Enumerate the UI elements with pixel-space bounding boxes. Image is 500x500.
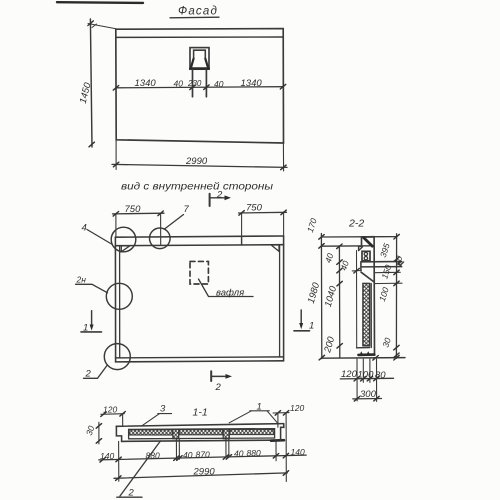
tick [174, 456, 179, 461]
svg-text:40: 40 [174, 79, 184, 89]
extension line left of profile [356, 251, 358, 349]
bottom dims extension a [362, 359, 364, 382]
inner view right edge [283, 236, 285, 361]
svg-text:40: 40 [234, 449, 244, 459]
tick [226, 455, 231, 460]
svg-text:750: 750 [125, 204, 142, 215]
bottom dimension line 1 [99, 455, 306, 460]
rib end tick [400, 262, 404, 266]
tick [96, 439, 101, 444]
svg-text:Фасад: Фасад [178, 6, 218, 18]
tick [223, 455, 228, 460]
вафля leader [199, 279, 254, 297]
lifting slot funnel left [191, 59, 194, 68]
label 3 underline [158, 413, 172, 415]
svg-text:2990: 2990 [193, 467, 216, 478]
facade left dimension line 1450 [90, 19, 92, 147]
svg-text:2-2: 2-2 [348, 218, 364, 230]
dim 300 extension a [356, 359, 358, 401]
dashed opening вафля [190, 261, 208, 284]
svg-text:300: 300 [360, 389, 377, 400]
band bottom extension line [322, 245, 373, 247]
tick [374, 396, 379, 401]
rib end notch [398, 262, 401, 267]
facade bottom dimension extension right [282, 143, 284, 171]
tick [158, 211, 163, 216]
tick [361, 376, 366, 381]
bottom dims extension b [369, 359, 371, 383]
bottom extension line [322, 357, 405, 360]
svg-text:40: 40 [183, 450, 193, 460]
lifting slot inner box [194, 50, 206, 58]
insulation segment 3 [230, 429, 274, 434]
dim 120 right extension a [277, 413, 279, 427]
dim 300 line [353, 398, 382, 400]
rib bottom edge [361, 266, 401, 268]
inner view bottom band line [116, 361, 284, 362]
label 3 leader [142, 414, 160, 427]
dim 750 left extension b [160, 213, 162, 245]
bottom dimension line 2990 [114, 473, 287, 478]
dim 750 right extension a [241, 213, 243, 236]
dim extension line y283 [374, 282, 402, 284]
left outer dimension line [320, 234, 322, 359]
inner frame right [274, 429, 276, 438]
hatch bottom line [357, 347, 370, 349]
dim 750 right extension b [283, 212, 285, 236]
tick small [92, 24, 97, 28]
svg-text:40: 40 [214, 79, 224, 89]
section mark 1 left line [91, 311, 93, 327]
svg-text:140: 140 [291, 447, 305, 457]
slot channel right line [205, 70, 207, 97]
lifting slot bottom thick edge [190, 67, 209, 70]
profile step tick [359, 247, 363, 250]
tick [394, 257, 399, 262]
tick [373, 356, 378, 361]
bottom dims line 120-100-80 [340, 377, 393, 380]
label 2 leader [84, 366, 108, 379]
svg-text:1-1: 1-1 [193, 407, 208, 419]
inner frame left [128, 429, 130, 438]
rib top edge [361, 261, 402, 263]
rib left face [360, 262, 362, 271]
top extension line [322, 236, 398, 238]
svg-text:120: 120 [290, 403, 304, 413]
dim 120 left line [101, 413, 125, 416]
label 1 underline [250, 410, 269, 412]
insulation segment 2 [179, 430, 222, 435]
section mark 2 top bar [209, 194, 211, 206]
inner frame bottom [129, 437, 275, 440]
anchor box [362, 251, 370, 260]
tick [367, 376, 372, 381]
strip right cap [281, 424, 284, 441]
section mark 1 left arrowhead [90, 325, 94, 331]
extension x276 [275, 440, 277, 461]
lifting slot funnel right [205, 59, 208, 68]
dim 300 extension b [376, 359, 378, 401]
svg-text:880: 880 [247, 448, 261, 458]
connector rib 2 [223, 429, 229, 438]
svg-text:870: 870 [196, 449, 210, 459]
dim 750 left line [113, 212, 165, 215]
dim 150 extension line [375, 271, 401, 273]
tick [394, 281, 399, 286]
tick [337, 260, 342, 265]
tick [337, 244, 342, 249]
tick [177, 456, 182, 461]
section mark 1 right line [300, 310, 302, 325]
strip bottom thick right [271, 439, 284, 442]
top band joint [241, 236, 243, 245]
lifting slot outer box [190, 48, 209, 70]
insulation segment 1 [129, 430, 172, 435]
dim 40 tick line left [352, 270, 361, 272]
svg-text:7: 7 [184, 204, 190, 215]
label 4 leader [87, 230, 112, 245]
tick [394, 345, 399, 350]
tick [283, 453, 288, 458]
tick [283, 411, 288, 416]
detail circle C1 [111, 227, 136, 252]
foot triangle left [360, 351, 363, 354]
section mark 2 top arrowhead [225, 195, 232, 200]
inner frame top [129, 428, 275, 431]
thick diagonal in top band [364, 238, 373, 246]
svg-text:2: 2 [216, 190, 223, 201]
facade middle dimension line [116, 87, 283, 88]
dim 120 right line [273, 412, 289, 414]
inner view right band line [279, 245, 281, 357]
tick [100, 458, 105, 463]
tick [280, 84, 285, 89]
svg-text:2: 2 [215, 382, 222, 393]
profile top edge [361, 236, 374, 238]
tick [113, 86, 118, 91]
inner view left band line [119, 246, 121, 358]
tick [116, 457, 121, 462]
tick [88, 21, 93, 26]
tick [113, 162, 118, 167]
tick [394, 234, 399, 239]
strip left cap [116, 426, 121, 441]
anchor circle upper [364, 252, 367, 255]
svg-text:2н: 2н [76, 275, 87, 285]
svg-text:вафля: вафля [216, 288, 244, 299]
tick [204, 85, 209, 90]
svg-text:120: 120 [341, 369, 358, 380]
inner view bottom edge [116, 357, 284, 358]
section mark 2 bottom arrowhead [226, 374, 233, 379]
label 1 leader b [267, 411, 278, 424]
extension x118 [118, 441, 120, 481]
tick [319, 355, 324, 360]
tick [89, 142, 94, 147]
label 1 leader a [229, 411, 251, 423]
tick [374, 376, 379, 381]
extension x225 [225, 439, 227, 458]
inner face line [370, 284, 372, 348]
strip top edge [116, 424, 284, 427]
profile step [359, 246, 362, 250]
svg-text:3: 3 [160, 404, 166, 415]
tick [337, 344, 342, 349]
tick [319, 235, 324, 240]
profile left face upper [361, 237, 363, 246]
tick [319, 244, 324, 249]
label 2 bottom leader [120, 441, 161, 496]
facade top band line [116, 36, 283, 38]
section mark 2 top arrow [210, 197, 226, 199]
dim 30 line [98, 422, 100, 444]
extension x179 [178, 439, 180, 460]
foot triangle right [367, 351, 370, 354]
tick [190, 85, 195, 90]
label 2 bottom underline [117, 496, 142, 498]
tick [281, 165, 286, 170]
tick [275, 411, 280, 416]
svg-text:230: 230 [187, 79, 202, 88]
inner view top edge [115, 236, 283, 237]
facade bottom dimension extension left [115, 140, 117, 170]
section mark 2 bottom arrow [211, 375, 227, 377]
tick [96, 424, 101, 429]
dim 750 right line [239, 211, 287, 214]
dim 120 right extension long [285, 413, 287, 482]
svg-text:4: 4 [82, 223, 87, 234]
cropped element at top edge [57, 1, 143, 4]
detail circle C4 [104, 344, 130, 370]
svg-text:вид с внутренней стороны: вид с внутренней стороны [121, 182, 274, 193]
tick [281, 210, 286, 215]
inner dimension line [338, 246, 340, 358]
detail circle C2 [150, 228, 171, 249]
detail circle C3 [106, 283, 132, 309]
tick [354, 268, 359, 273]
strip bottom edge [122, 440, 284, 441]
inner view left edge [114, 237, 116, 362]
section mark 1 right bar [294, 330, 310, 332]
top extension to facade corner [88, 24, 116, 29]
section mark 1 right arrowhead [299, 323, 303, 329]
profile inner diagonal [361, 272, 374, 282]
label 2н leader [76, 284, 108, 293]
insulation hatch strip [363, 283, 370, 345]
svg-text:1: 1 [309, 321, 314, 332]
connector rib 1 [173, 429, 179, 438]
right dimension line [395, 234, 397, 359]
facade outline [116, 29, 284, 143]
section mark 2 bottom bar [210, 371, 212, 381]
tick [337, 268, 342, 273]
svg-text:1340: 1340 [135, 78, 157, 89]
inner view top band line [115, 245, 283, 246]
svg-text:2990: 2990 [185, 156, 208, 167]
tick [113, 212, 118, 217]
tick [394, 270, 399, 275]
tick [101, 412, 106, 417]
tick [394, 353, 399, 358]
tick [239, 211, 244, 216]
tick [116, 476, 121, 481]
anchor circle lower [364, 257, 367, 260]
dim 120 left extension [122, 414, 124, 427]
tick [273, 454, 278, 459]
extension x176 [175, 439, 177, 460]
svg-text:750: 750 [246, 203, 263, 214]
facade bottom dimension line 2990 [112, 164, 287, 167]
tick [354, 397, 359, 402]
slot channel left line [192, 70, 194, 97]
tick [394, 355, 399, 360]
profile right face [373, 237, 375, 355]
dim 750 left extension a [115, 214, 117, 237]
section mark 1 left bar [81, 331, 102, 333]
svg-text:140: 140 [100, 451, 114, 461]
tick [120, 412, 125, 417]
title underline [170, 16, 219, 19]
corner notch left [121, 246, 130, 252]
svg-text:100: 100 [358, 370, 375, 381]
profile bottom thick edge [359, 353, 375, 356]
svg-text:1: 1 [83, 323, 88, 334]
svg-text:1340: 1340 [241, 78, 263, 89]
label 7 leader [165, 215, 184, 230]
tick [354, 376, 359, 381]
corner notch right [271, 245, 279, 251]
tick [283, 471, 288, 476]
extension x228 [228, 439, 230, 458]
tick [337, 281, 342, 286]
